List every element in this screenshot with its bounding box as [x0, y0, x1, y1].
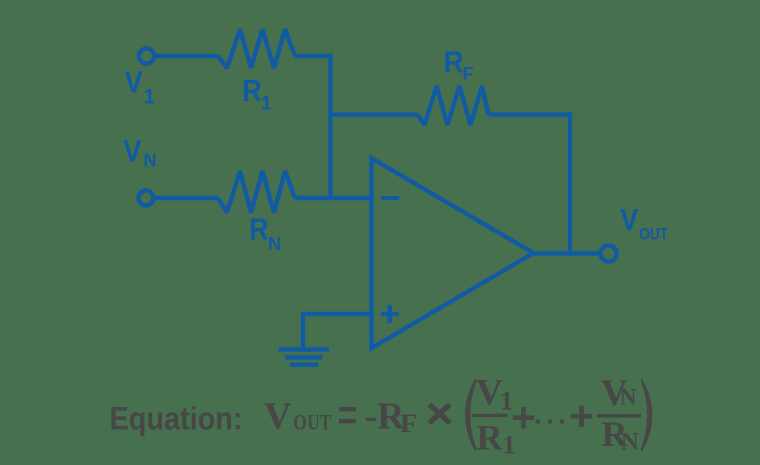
resistor RN: [218, 171, 295, 213]
input terminal V1: [139, 49, 154, 64]
wire op-amp output: [534, 251, 601, 255]
equation plus sign: [513, 415, 534, 420]
svg-text:V: V: [123, 135, 142, 169]
svg-text:N: N: [621, 429, 639, 456]
svg-text:V: V: [620, 203, 639, 237]
op-amp U1 triangle: [372, 158, 534, 348]
svg-text:N: N: [620, 384, 637, 409]
wire feedback down to output: [568, 112, 572, 253]
svg-text:1: 1: [503, 430, 516, 459]
wire op-amp non-inverting input: [303, 314, 372, 350]
equation ellipsis: [536, 419, 541, 424]
svg-text:V: V: [476, 372, 503, 413]
svg-text:R: R: [477, 418, 504, 458]
op-amp minus sign: [381, 196, 399, 200]
svg-text:OUT: OUT: [639, 225, 669, 244]
svg-text:1: 1: [144, 86, 156, 109]
equation equals sign: [339, 407, 356, 412]
input terminal VN: [139, 191, 154, 206]
svg-text:R: R: [444, 46, 463, 80]
wire corner down to summing node: [328, 54, 332, 198]
svg-text:Equation:: Equation:: [110, 401, 243, 437]
svg-text:F: F: [463, 64, 474, 84]
wire R1 to corner: [295, 54, 333, 58]
op-amp plus sign: [381, 305, 399, 323]
equation open paren: [465, 379, 477, 452]
resistor RF: [418, 86, 489, 125]
svg-text:N: N: [144, 151, 157, 171]
wire RF to right corner: [489, 112, 571, 116]
ground: [279, 347, 329, 351]
equation close paren: [641, 379, 653, 452]
equation multiply sign: [429, 404, 450, 423]
svg-text:N: N: [268, 234, 281, 254]
equation plus sign 2: [571, 414, 592, 419]
resistor R1: [218, 29, 295, 68]
svg-text:1: 1: [500, 386, 513, 415]
svg-text:R: R: [249, 213, 268, 247]
svg-text:V: V: [264, 396, 292, 438]
svg-text:R: R: [242, 74, 261, 108]
svg-text:F: F: [400, 408, 418, 437]
wire V1 to R1: [156, 54, 218, 58]
wire summing node to feedback: [331, 112, 418, 116]
svg-text:V: V: [125, 66, 144, 100]
svg-text:OUT: OUT: [293, 411, 331, 435]
wire VN to RN: [156, 196, 219, 200]
svg-text:1: 1: [261, 94, 272, 115]
output terminal VOUT: [601, 246, 617, 262]
wire RN to op-amp inverting input: [295, 196, 372, 200]
